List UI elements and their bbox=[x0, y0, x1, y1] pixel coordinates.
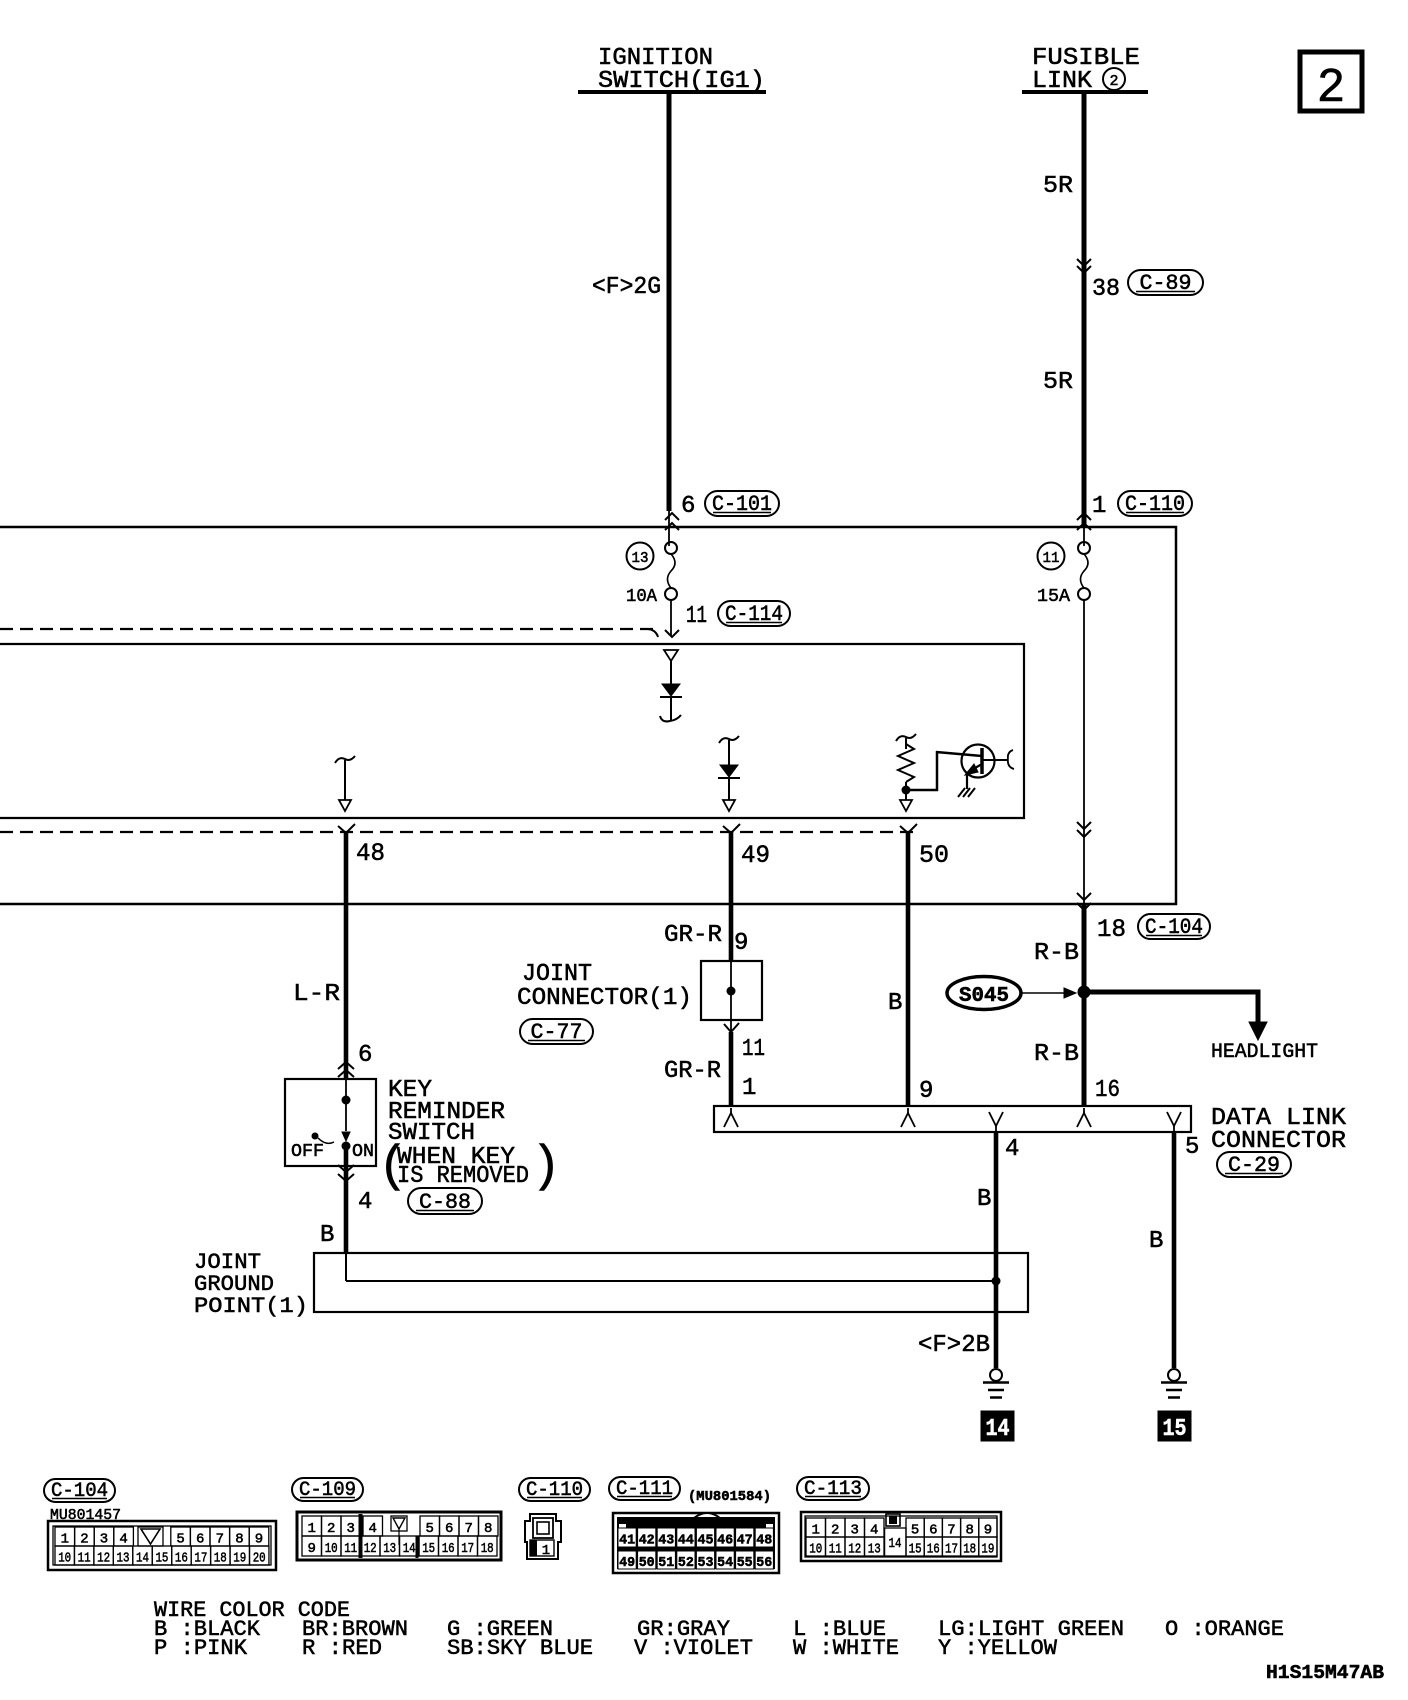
svg-text:ON: ON bbox=[352, 1142, 374, 1162]
svg-text:4: 4 bbox=[358, 1189, 372, 1216]
svg-text:R-B: R-B bbox=[1034, 1041, 1079, 1068]
ground G14 bbox=[981, 1369, 1014, 1443]
svg-text:R-B: R-B bbox=[1034, 940, 1079, 967]
svg-text:15: 15 bbox=[1163, 1416, 1187, 1443]
svg-text:H1S15M47AB: H1S15M47AB bbox=[1266, 1662, 1384, 1684]
svg-text:W :WHITE: W :WHITE bbox=[793, 1636, 899, 1661]
svg-text:54: 54 bbox=[717, 1555, 733, 1571]
svg-text:44: 44 bbox=[678, 1533, 694, 1549]
svg-text:12: 12 bbox=[364, 1541, 377, 1557]
svg-text:7: 7 bbox=[464, 1521, 472, 1537]
svg-text:<F>2B: <F>2B bbox=[918, 1332, 990, 1359]
svg-text:17: 17 bbox=[461, 1541, 474, 1557]
wire pin 49 from unit bbox=[723, 824, 770, 961]
svg-text:13: 13 bbox=[632, 550, 649, 567]
junction node at splice S045 bbox=[1078, 986, 1091, 999]
svg-text:11: 11 bbox=[742, 1036, 765, 1063]
connector C-111 pinout drawing bbox=[613, 1513, 779, 1573]
svg-text:5R: 5R bbox=[1043, 173, 1073, 200]
svg-text:1: 1 bbox=[1092, 493, 1106, 520]
svg-text:2: 2 bbox=[80, 1532, 88, 1548]
svg-text:15: 15 bbox=[155, 1551, 168, 1567]
svg-text:49: 49 bbox=[741, 841, 770, 870]
inline connector crossing 38 (C-89) bbox=[1077, 259, 1203, 303]
svg-text:19: 19 bbox=[981, 1542, 994, 1558]
svg-text:B: B bbox=[977, 1186, 991, 1213]
joint ground point caption bbox=[194, 1250, 308, 1319]
pin 6 into key reminder switch bbox=[338, 1042, 372, 1077]
wire: ignition switch feed, (F)2G bbox=[592, 92, 669, 511]
svg-text:5: 5 bbox=[1185, 1134, 1199, 1161]
svg-text:18: 18 bbox=[1097, 915, 1126, 944]
svg-text:C-113: C-113 bbox=[804, 1478, 862, 1501]
diode D1 inside unit bbox=[660, 650, 682, 721]
svg-text:12: 12 bbox=[97, 1551, 110, 1567]
svg-text:POINT(1): POINT(1) bbox=[194, 1294, 308, 1319]
svg-text:4: 4 bbox=[119, 1532, 127, 1548]
fuse 11, 15A bbox=[1037, 542, 1090, 607]
wire pin 5 from DLC bbox=[1149, 1132, 1199, 1368]
svg-text:O :ORANGE: O :ORANGE bbox=[1165, 1617, 1284, 1642]
wire from fuse 11 down through junction block bbox=[1077, 600, 1091, 904]
svg-text:2: 2 bbox=[1317, 62, 1346, 116]
svg-text:18: 18 bbox=[481, 1541, 494, 1557]
svg-text:16: 16 bbox=[1095, 1077, 1120, 1104]
pin 18 (C-104) out of junction block bbox=[1077, 893, 1210, 1106]
pin 4 out of key reminder switch bbox=[338, 1165, 372, 1253]
connector ref C-110 (pinout) bbox=[519, 1478, 590, 1502]
svg-text:7: 7 bbox=[947, 1523, 955, 1539]
svg-text:11: 11 bbox=[686, 603, 707, 630]
svg-text:53: 53 bbox=[698, 1555, 714, 1571]
pin 6 (C-101) into junction block bbox=[665, 491, 779, 546]
svg-text:48: 48 bbox=[756, 1533, 772, 1549]
joint connector (1) caption bbox=[517, 961, 692, 1012]
svg-text:1: 1 bbox=[812, 1523, 820, 1539]
svg-text:C-109: C-109 bbox=[299, 1479, 356, 1502]
svg-text:52: 52 bbox=[678, 1555, 694, 1571]
joint ground point box bbox=[314, 1253, 1028, 1312]
svg-text:2: 2 bbox=[327, 1521, 335, 1537]
data link connector caption bbox=[1211, 1105, 1347, 1155]
svg-text:16: 16 bbox=[175, 1551, 188, 1567]
svg-text:2: 2 bbox=[1109, 73, 1118, 90]
wire color code legend bbox=[154, 1598, 1284, 1661]
svg-text:4: 4 bbox=[368, 1521, 376, 1537]
svg-text:C-104: C-104 bbox=[51, 1480, 108, 1503]
svg-text:5: 5 bbox=[911, 1523, 919, 1539]
wire from fuse 13 to pin 11 (C-114) bbox=[665, 600, 790, 637]
svg-text:14: 14 bbox=[889, 1536, 902, 1552]
svg-text:14: 14 bbox=[986, 1416, 1010, 1443]
svg-text:1: 1 bbox=[61, 1532, 69, 1548]
svg-text:11: 11 bbox=[829, 1542, 842, 1558]
svg-text:15: 15 bbox=[909, 1542, 922, 1558]
svg-text:11: 11 bbox=[1043, 550, 1060, 567]
svg-text:10: 10 bbox=[809, 1542, 822, 1558]
connector ref C-109 (pinout) bbox=[292, 1478, 363, 1502]
wire: fusible link feed, 5R bbox=[1043, 92, 1084, 527]
pin 11 out of joint connector bbox=[724, 1020, 765, 1106]
wire pin 50 from unit bbox=[900, 824, 949, 1106]
resistor inside unit bbox=[896, 734, 916, 795]
dashed bus line inside junction block bbox=[0, 629, 658, 637]
svg-text:18: 18 bbox=[214, 1551, 227, 1567]
svg-text:3: 3 bbox=[851, 1523, 859, 1539]
svg-text:8: 8 bbox=[965, 1523, 973, 1539]
svg-text:B: B bbox=[888, 990, 902, 1017]
pin 50 stub inside unit bbox=[900, 790, 912, 811]
svg-text:(MU801584): (MU801584) bbox=[688, 1489, 771, 1505]
svg-text:45: 45 bbox=[698, 1533, 714, 1549]
svg-text:41: 41 bbox=[619, 1533, 635, 1549]
data link connector bar C-29 bbox=[714, 1106, 1191, 1132]
ground G15 bbox=[1158, 1369, 1191, 1443]
connector C-104 pinout drawing bbox=[48, 1521, 276, 1570]
svg-text:11: 11 bbox=[344, 1541, 357, 1557]
svg-text:C-111: C-111 bbox=[616, 1478, 673, 1501]
transistor Q1 inside unit bbox=[906, 745, 1014, 798]
svg-text:V :VIOLET: V :VIOLET bbox=[634, 1636, 753, 1661]
svg-text:2: 2 bbox=[831, 1523, 839, 1539]
svg-text:16: 16 bbox=[927, 1542, 940, 1558]
svg-text:43: 43 bbox=[658, 1533, 674, 1549]
pin 1 (C-110) into junction block bbox=[1077, 491, 1192, 546]
svg-text:16: 16 bbox=[442, 1541, 455, 1557]
svg-text:13: 13 bbox=[383, 1541, 396, 1557]
svg-text:L-R: L-R bbox=[293, 981, 340, 1008]
svg-text:14: 14 bbox=[403, 1541, 416, 1557]
svg-text:17: 17 bbox=[194, 1551, 207, 1567]
wire branch to headlight bbox=[1084, 992, 1318, 1064]
svg-text:48: 48 bbox=[356, 839, 385, 868]
wire label GR-R / pin 9 joint connector bbox=[664, 922, 748, 957]
svg-text:9: 9 bbox=[919, 1078, 933, 1105]
connector ref C-29 bbox=[1217, 1152, 1291, 1178]
svg-text:13: 13 bbox=[117, 1551, 130, 1567]
svg-text:JOINT: JOINT bbox=[522, 961, 592, 988]
svg-text:CONNECTOR: CONNECTOR bbox=[1211, 1128, 1346, 1155]
svg-text:5: 5 bbox=[176, 1532, 184, 1548]
svg-text:38: 38 bbox=[1092, 276, 1120, 303]
connector C-109 pinout drawing bbox=[297, 1512, 501, 1560]
svg-text:9: 9 bbox=[307, 1541, 315, 1557]
svg-text:56: 56 bbox=[756, 1555, 772, 1571]
svg-text:55: 55 bbox=[737, 1555, 753, 1571]
svg-text:P :PINK: P :PINK bbox=[154, 1636, 248, 1661]
svg-text:7: 7 bbox=[216, 1532, 224, 1548]
svg-text:11: 11 bbox=[78, 1551, 91, 1567]
svg-text:6: 6 bbox=[929, 1523, 937, 1539]
svg-text:8: 8 bbox=[484, 1521, 492, 1537]
connector ref C-88 bbox=[408, 1188, 482, 1215]
svg-text:15A: 15A bbox=[1037, 587, 1070, 607]
svg-text:C-110: C-110 bbox=[526, 1479, 583, 1502]
connector C-113 pinout drawing bbox=[801, 1512, 1001, 1561]
svg-text:3: 3 bbox=[100, 1532, 108, 1548]
svg-text:GR-R: GR-R bbox=[664, 922, 722, 949]
wire pin 4 from DLC bbox=[977, 1132, 1019, 1368]
page number box 2 bbox=[1300, 52, 1362, 116]
svg-text:4: 4 bbox=[1005, 1136, 1019, 1163]
svg-text:19: 19 bbox=[233, 1551, 246, 1567]
svg-text:9: 9 bbox=[255, 1532, 263, 1548]
svg-text:10A: 10A bbox=[626, 587, 657, 607]
svg-text:20: 20 bbox=[253, 1551, 266, 1567]
svg-text:1: 1 bbox=[307, 1521, 315, 1537]
svg-text:B: B bbox=[1149, 1228, 1163, 1255]
svg-text:46: 46 bbox=[717, 1533, 733, 1549]
svg-text:10: 10 bbox=[58, 1551, 71, 1567]
svg-text:R :RED: R :RED bbox=[302, 1636, 382, 1661]
power feed: ignition switch (IG1) bbox=[578, 45, 766, 95]
key reminder switch box bbox=[285, 1079, 376, 1166]
svg-text:CONNECTOR(1): CONNECTOR(1) bbox=[517, 985, 692, 1012]
svg-text:1: 1 bbox=[742, 1075, 756, 1102]
svg-text:17: 17 bbox=[945, 1542, 958, 1558]
svg-text:50: 50 bbox=[639, 1555, 655, 1571]
svg-text:51: 51 bbox=[658, 1555, 674, 1571]
svg-text:50: 50 bbox=[919, 841, 949, 870]
svg-text:13: 13 bbox=[868, 1542, 881, 1558]
svg-text:6: 6 bbox=[196, 1532, 204, 1548]
svg-text:9: 9 bbox=[984, 1523, 992, 1539]
splice S045 bbox=[947, 977, 1076, 1010]
svg-text:6: 6 bbox=[445, 1521, 453, 1537]
wire label GR-R / pin 1 into DLC bbox=[664, 1058, 756, 1102]
svg-text:42: 42 bbox=[639, 1533, 655, 1549]
svg-text:OFF: OFF bbox=[291, 1142, 324, 1162]
connector ref C-113 (pinout) bbox=[797, 1477, 869, 1501]
dashed connector line C-104/C-114 boundary bbox=[0, 831, 920, 833]
connector ref C-77 bbox=[520, 1019, 593, 1045]
svg-text:18: 18 bbox=[963, 1542, 976, 1558]
svg-text:1: 1 bbox=[542, 1543, 550, 1559]
svg-text:5: 5 bbox=[425, 1521, 433, 1537]
svg-text:4: 4 bbox=[870, 1523, 878, 1539]
svg-text:6: 6 bbox=[681, 493, 695, 520]
joint connector (1) box bbox=[701, 961, 762, 1020]
pin 48 stub inside unit bbox=[335, 756, 355, 811]
column switch unit box bbox=[0, 644, 1024, 818]
svg-text:12: 12 bbox=[848, 1542, 861, 1558]
svg-text:14: 14 bbox=[136, 1551, 149, 1567]
svg-text:8: 8 bbox=[235, 1532, 243, 1548]
svg-text:): ) bbox=[531, 1139, 561, 1196]
svg-text:Y :YELLOW: Y :YELLOW bbox=[938, 1636, 1058, 1661]
svg-text:15: 15 bbox=[422, 1541, 435, 1557]
svg-text:47: 47 bbox=[737, 1533, 753, 1549]
svg-text:B: B bbox=[320, 1222, 334, 1249]
svg-text:HEADLIGHT: HEADLIGHT bbox=[1211, 1041, 1318, 1064]
svg-text:49: 49 bbox=[619, 1555, 635, 1571]
svg-text:(: ( bbox=[378, 1139, 408, 1196]
svg-text:10: 10 bbox=[325, 1541, 338, 1557]
svg-text:9: 9 bbox=[734, 930, 748, 957]
svg-text:GR-R: GR-R bbox=[664, 1058, 721, 1085]
fuse 13, 10A bbox=[626, 542, 677, 607]
key reminder switch caption bbox=[378, 1077, 561, 1196]
svg-text:5R: 5R bbox=[1043, 369, 1073, 396]
junction block outer box bbox=[0, 527, 1176, 904]
power feed: fusible link 2 bbox=[1022, 45, 1148, 95]
svg-text:SB:SKY BLUE: SB:SKY BLUE bbox=[447, 1636, 593, 1661]
svg-text:<F>2G: <F>2G bbox=[592, 274, 661, 301]
connector ref C-104 (pinout) bbox=[44, 1479, 115, 1503]
svg-text:S045: S045 bbox=[959, 985, 1009, 1008]
svg-text:3: 3 bbox=[346, 1521, 354, 1537]
connector C-110 pinout drawing bbox=[525, 1514, 561, 1559]
wire pin 48 from unit bbox=[338, 824, 385, 1079]
connector ref C-111 (pinout) bbox=[609, 1477, 680, 1501]
svg-text:6: 6 bbox=[358, 1042, 372, 1069]
svg-text:IS REMOVED: IS REMOVED bbox=[397, 1163, 529, 1190]
diode D2 inside unit bbox=[718, 736, 740, 811]
